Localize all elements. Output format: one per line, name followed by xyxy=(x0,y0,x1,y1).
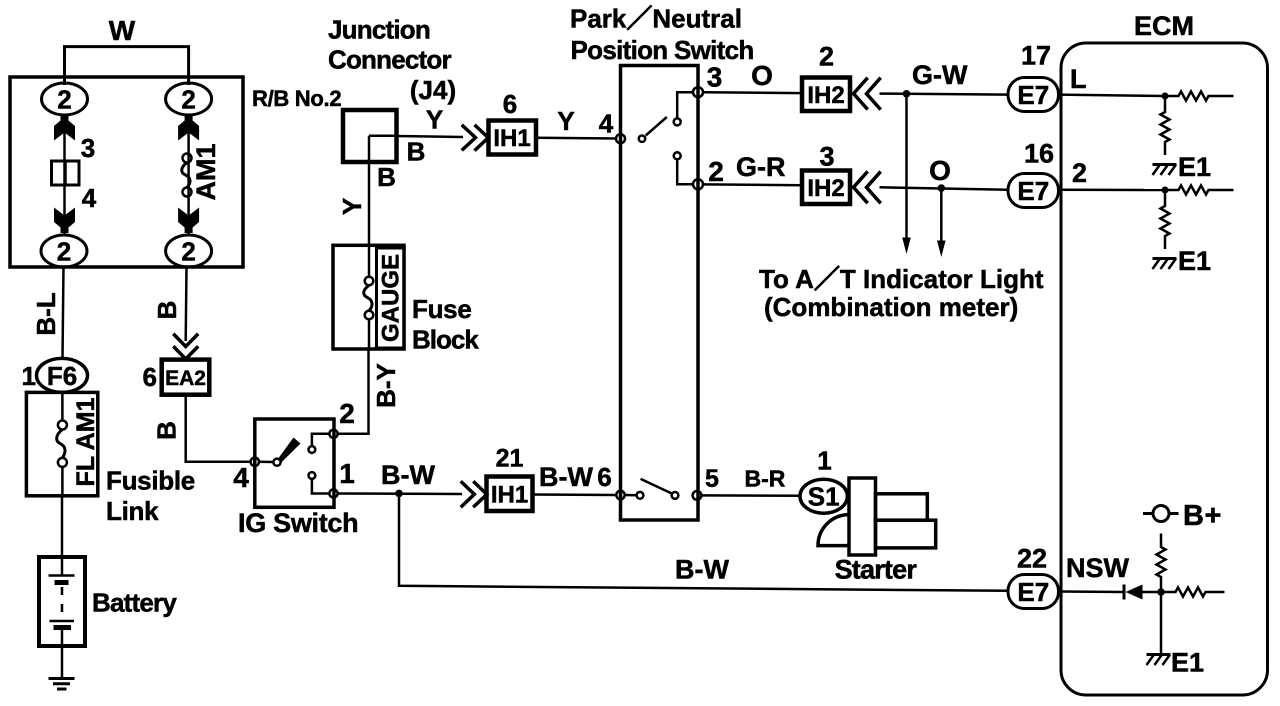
svg-text:B: B xyxy=(407,137,426,167)
P/N lower lever xyxy=(641,479,673,494)
wire B (right column down) xyxy=(184,267,187,341)
svg-text:2: 2 xyxy=(181,237,195,267)
svg-text:Block: Block xyxy=(412,325,479,355)
svg-text:Fuse: Fuse xyxy=(412,294,471,324)
svg-text:4: 4 xyxy=(82,183,97,213)
wire O row2 xyxy=(880,187,1009,190)
connector E7 22 xyxy=(1008,575,1059,609)
connector arrow up left xyxy=(54,115,75,141)
svg-text:IH2: IH2 xyxy=(807,82,844,109)
svg-text:ECM: ECM xyxy=(1134,11,1194,41)
resistor vertical row1 xyxy=(1161,96,1170,155)
svg-text:Starter: Starter xyxy=(835,555,918,585)
wire NSW inside ECM xyxy=(1059,590,1125,593)
wire to battery xyxy=(61,496,64,557)
terminal 2 (P/N) xyxy=(693,179,703,189)
svg-text:Link: Link xyxy=(106,496,159,526)
connector IH2 (row1) xyxy=(802,78,850,112)
node B-W xyxy=(395,490,403,498)
ground E1 row2 xyxy=(1153,257,1177,260)
svg-text:S1: S1 xyxy=(808,482,840,512)
svg-text:3: 3 xyxy=(707,62,723,93)
resistor vertical to B+ xyxy=(1157,534,1166,593)
arrow down to indicator (row1) xyxy=(905,94,908,239)
wire B-L xyxy=(63,267,64,358)
wire 2 row2 inside ECM xyxy=(1059,189,1166,192)
svg-text:R/B No.2: R/B No.2 xyxy=(252,86,341,111)
relay block R/B No.2 box xyxy=(10,77,243,267)
svg-text:E7: E7 xyxy=(1017,176,1049,206)
svg-text:Fusible: Fusible xyxy=(106,466,195,496)
terminal 4 (P/N) xyxy=(616,134,625,143)
node (O junction) xyxy=(938,184,946,192)
svg-text:O: O xyxy=(929,155,951,186)
svg-text:B+: B+ xyxy=(1183,500,1222,532)
ECM box xyxy=(1061,43,1268,695)
svg-text:1: 1 xyxy=(22,361,36,391)
connector S1 xyxy=(800,479,847,513)
wire left column in R/B xyxy=(63,115,66,236)
connector chevrons left (row1) xyxy=(854,79,867,108)
node (G-W junction) xyxy=(903,90,911,98)
connector arrow down right xyxy=(178,208,199,234)
svg-text:(J4): (J4) xyxy=(410,75,456,105)
svg-text:Battery: Battery xyxy=(92,588,177,618)
svg-text:4: 4 xyxy=(233,462,249,493)
IG switch lever xyxy=(259,461,273,464)
svg-text:2: 2 xyxy=(181,85,195,115)
connector arrow up right xyxy=(178,115,199,141)
IG Switch box xyxy=(255,419,334,507)
svg-text:W: W xyxy=(109,15,136,46)
svg-text:4: 4 xyxy=(599,109,614,139)
resistor horizontal row1 xyxy=(1165,92,1234,101)
svg-text:B: B xyxy=(152,301,182,320)
wire row2 G-R xyxy=(703,183,802,186)
svg-text:5: 5 xyxy=(705,465,719,493)
connector square 3/4 xyxy=(52,161,80,185)
wire fuse block to junction connector xyxy=(368,162,371,245)
svg-text:B: B xyxy=(377,162,396,192)
svg-text:IG Switch: IG Switch xyxy=(238,508,358,538)
svg-text:B-L: B-L xyxy=(31,292,61,335)
IG contact lower xyxy=(309,472,316,479)
svg-text:FL AM1: FL AM1 xyxy=(72,397,100,486)
resistor horizontal NSW xyxy=(1161,588,1225,597)
svg-text:IH2: IH2 xyxy=(807,175,844,202)
GAUGE inner box xyxy=(377,248,405,348)
fuse FL AM1 xyxy=(58,421,67,430)
fuse AM1 xyxy=(183,154,192,163)
svg-text:E7: E7 xyxy=(1017,80,1049,110)
svg-text:B: B xyxy=(152,421,182,440)
svg-text:G-R: G-R xyxy=(736,152,786,182)
svg-text:2: 2 xyxy=(819,42,834,72)
starter body xyxy=(849,478,876,555)
svg-text:6: 6 xyxy=(503,89,517,119)
svg-text:6: 6 xyxy=(143,362,157,392)
connector arrow down left xyxy=(54,208,75,234)
svg-text:G-W: G-W xyxy=(912,60,968,90)
node row1 xyxy=(1162,93,1169,100)
connector 2 bottom-right xyxy=(166,235,212,267)
wire down to E1 xyxy=(1160,592,1163,654)
connector IH1 (top) xyxy=(489,121,537,155)
svg-text:3: 3 xyxy=(81,133,95,163)
fuse GAUGE xyxy=(368,245,371,277)
svg-text:1: 1 xyxy=(817,446,831,476)
connector 2 top-right xyxy=(166,83,212,115)
ground E1 row1 xyxy=(1153,163,1177,166)
junction connector J4 box xyxy=(343,110,397,162)
connector chevrons down (EA2) xyxy=(175,335,198,347)
wire right column in R/B xyxy=(187,115,190,236)
IG contact upper xyxy=(309,446,316,453)
svg-text:2: 2 xyxy=(57,237,71,267)
connector IH1 (bottom) xyxy=(487,477,533,512)
terminal 4 (IG) xyxy=(251,458,259,466)
svg-text:Park／Neutral: Park／Neutral xyxy=(570,4,742,34)
svg-text:Connector: Connector xyxy=(328,45,451,75)
svg-text:2: 2 xyxy=(1072,158,1087,188)
svg-text:E1: E1 xyxy=(1178,246,1211,276)
svg-text:IH1: IH1 xyxy=(491,482,528,509)
connector chevrons right (IH1 bottom) xyxy=(462,483,474,507)
svg-text:17: 17 xyxy=(1021,41,1051,71)
svg-text:2: 2 xyxy=(708,156,724,187)
wire B-R to starter xyxy=(702,494,802,497)
P/N contact 3 xyxy=(674,118,681,125)
wire IH1 to P/N 6 xyxy=(533,493,617,496)
svg-text:16: 16 xyxy=(1024,139,1054,169)
terminal 3 (P/N) xyxy=(693,87,703,97)
svg-text:GAUGE: GAUGE xyxy=(378,254,405,342)
wire IH1 to P/N 4 xyxy=(536,136,616,139)
svg-text:O: O xyxy=(751,60,773,91)
resistor horizontal row2 xyxy=(1165,186,1234,195)
svg-text:E1: E1 xyxy=(1178,152,1211,182)
terminal 1 (IG) xyxy=(329,489,337,497)
svg-text:22: 22 xyxy=(1017,544,1047,574)
svg-text:Y: Y xyxy=(337,198,367,215)
connector E7 16 xyxy=(1008,174,1059,208)
connector E7 17 xyxy=(1008,78,1059,112)
fuse block box xyxy=(333,245,404,349)
svg-text:B-R: B-R xyxy=(745,466,786,492)
svg-text:EA2: EA2 xyxy=(165,367,206,390)
Park/Neutral Position Switch box xyxy=(621,66,699,521)
connector 2 top-left xyxy=(42,83,88,115)
svg-text:E7: E7 xyxy=(1017,577,1049,607)
connector F6 xyxy=(37,358,88,392)
svg-text:B-W: B-W xyxy=(675,555,729,585)
diode xyxy=(1123,585,1126,600)
svg-text:AM1: AM1 xyxy=(191,143,221,200)
wire W loop top xyxy=(65,47,189,85)
P/N contact 2 xyxy=(674,152,681,159)
connector chevrons right (IH1 top) xyxy=(463,126,476,149)
svg-text:To A／T Indicator Light: To A／T Indicator Light xyxy=(759,264,1044,294)
svg-text:IH1: IH1 xyxy=(493,125,530,152)
svg-text:Y: Y xyxy=(557,106,574,136)
wire G-W row1 xyxy=(880,94,1009,95)
svg-text:2: 2 xyxy=(339,398,355,429)
connector IH2 (row2) xyxy=(802,171,850,205)
P/N lower contact left xyxy=(625,494,637,497)
battery xyxy=(39,557,85,646)
connector chevrons left (row2) xyxy=(854,173,867,202)
wire B-W bottom run xyxy=(399,493,1008,590)
svg-text:B-Y: B-Y xyxy=(371,363,401,408)
svg-text:3: 3 xyxy=(819,142,834,172)
svg-text:Junction: Junction xyxy=(328,15,430,45)
svg-text:NSW: NSW xyxy=(1066,553,1130,583)
wire B-W from IG 1 xyxy=(338,492,462,495)
terminal 5 (P/N) xyxy=(693,491,702,500)
wire L row1 inside ECM xyxy=(1059,95,1166,96)
wire B to IG switch xyxy=(186,395,251,462)
wire J4 to IH1 xyxy=(397,136,464,137)
terminal 2 (IG) xyxy=(329,430,337,438)
svg-text:B-W: B-W xyxy=(381,460,435,490)
resistor vertical row2 xyxy=(1161,190,1170,249)
svg-text:F6: F6 xyxy=(47,361,77,391)
svg-text:21: 21 xyxy=(496,445,524,473)
connector 2 bottom-left xyxy=(41,235,87,267)
wire O row1 xyxy=(703,91,802,94)
svg-text:L: L xyxy=(1070,64,1087,94)
svg-text:B-W: B-W xyxy=(539,462,593,492)
svg-text:2: 2 xyxy=(57,85,71,115)
svg-text:E1: E1 xyxy=(1171,648,1204,678)
svg-text:(Combination meter): (Combination meter) xyxy=(764,292,1018,322)
node row2 xyxy=(1162,187,1169,194)
fusible link FL AM1 box xyxy=(26,392,97,495)
wire B-Y from IG 2 to fuse block xyxy=(338,349,369,434)
svg-text:6: 6 xyxy=(597,462,611,492)
ground (battery) xyxy=(49,677,75,680)
terminal 6 (P/N) xyxy=(616,491,624,499)
arrow down to indicator (row2) xyxy=(940,188,943,241)
svg-text:Y: Y xyxy=(426,105,443,135)
ground E1 bottom xyxy=(1147,653,1171,656)
svg-text:1: 1 xyxy=(339,458,355,489)
svg-text:Position Switch: Position Switch xyxy=(571,35,754,65)
connector EA2 xyxy=(162,360,210,395)
B+ terminal xyxy=(1153,506,1169,522)
P/N lever upper xyxy=(639,136,645,142)
node NSW xyxy=(1157,588,1165,596)
